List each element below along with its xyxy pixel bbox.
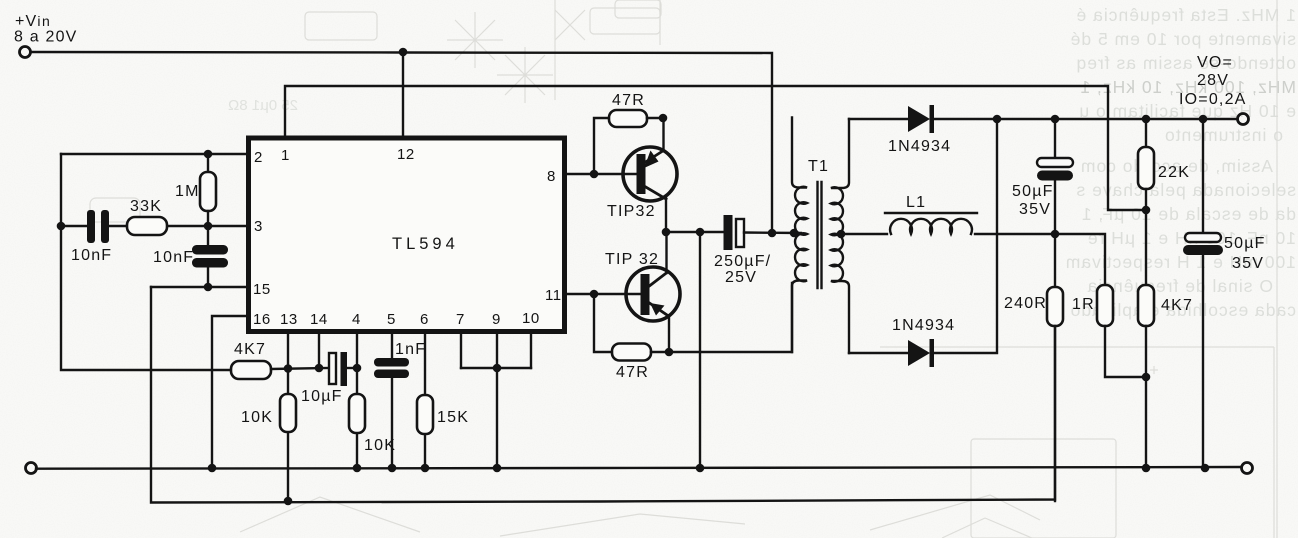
resistor R12 1R bbox=[1097, 285, 1113, 326]
wire left vertical from pin2 down bbox=[61, 154, 231, 370]
svg-text:L1: L1 bbox=[906, 194, 926, 211]
wire L1 to right column bbox=[975, 234, 1105, 285]
svg-text:8: 8 bbox=[547, 168, 556, 185]
resistor R5 10K bbox=[349, 394, 365, 433]
node pin4 wire bbox=[353, 364, 362, 373]
transformer T1 secondary bbox=[831, 119, 849, 353]
wire cap to center tap bbox=[744, 231, 801, 234]
bleed-through layer placeholder bbox=[0, 0, 1, 1]
svg-text:6: 6 bbox=[420, 311, 429, 328]
node collectors join bbox=[662, 228, 671, 237]
faint paper artifacts bbox=[1276, 0, 1278, 538]
svg-text:25V: 25V bbox=[725, 269, 757, 286]
wire pins 7-9-10 join bbox=[461, 367, 531, 369]
svg-text:28V: 28V bbox=[1197, 72, 1229, 89]
node 50uF mid tap bbox=[1051, 230, 1060, 239]
resistor R7 47R top bbox=[594, 118, 609, 174]
svg-text:33K: 33K bbox=[130, 198, 162, 215]
terminal output bbox=[1238, 114, 1249, 125]
svg-text:TL594: TL594 bbox=[392, 235, 459, 253]
svg-text:4: 4 bbox=[352, 311, 361, 328]
node 1M top bbox=[204, 150, 213, 159]
resistor R8 47R bottom bbox=[594, 294, 612, 352]
capacitor C7 50uF right bbox=[1202, 119, 1204, 234]
wire pin 3 chain bbox=[61, 225, 87, 227]
svg-text:15: 15 bbox=[253, 281, 271, 298]
svg-text:da de escala de 10 µF, 1: da de escala de 10 µF, 1 bbox=[1081, 204, 1296, 224]
node 4K7 ground bbox=[1142, 464, 1151, 473]
node ground drop bbox=[696, 228, 705, 237]
resistor R2 33K bbox=[127, 217, 167, 235]
node Q1 emitter / 47R bbox=[659, 114, 668, 123]
inductor L1 bbox=[890, 219, 972, 234]
svg-text:16: 16 bbox=[253, 311, 271, 328]
terminal +Vin input bbox=[20, 47, 31, 58]
resistor R1 1M bbox=[207, 154, 209, 172]
svg-text:240R: 240R bbox=[1004, 295, 1047, 312]
node pin5 ground bbox=[388, 464, 397, 473]
node Vin drop tap bbox=[768, 229, 777, 238]
node Q2 emitter 47R bbox=[665, 348, 674, 357]
svg-text:8 a 20V: 8 a 20V bbox=[14, 29, 78, 46]
node pin13 lower rail bbox=[284, 497, 293, 506]
wire lower feedback rail bbox=[151, 287, 1055, 503]
wire collector rail to cap bbox=[666, 231, 724, 233]
resistor R4 10K bbox=[280, 394, 296, 432]
svg-text:1: 1 bbox=[281, 147, 290, 164]
svg-text:TIP 32: TIP 32 bbox=[605, 251, 659, 268]
transformer T1 primary bbox=[792, 118, 807, 353]
resistor R6 15K bbox=[417, 395, 433, 434]
node 47R tap Q1 bbox=[590, 170, 599, 179]
svg-text:obtendo-se assim as freq: obtendo-se assim as freq bbox=[1076, 53, 1297, 73]
wire pin 2 bbox=[61, 153, 248, 155]
node pin14 wire bbox=[315, 364, 324, 373]
svg-text:1nF: 1nF bbox=[395, 341, 426, 358]
node 50uF right ground bbox=[1201, 464, 1210, 473]
node left 10nF bbox=[57, 222, 66, 231]
wire pin 4 vertical bbox=[356, 334, 358, 394]
diode D1 1N4934 bbox=[849, 118, 908, 120]
node pin13 wire bbox=[284, 364, 293, 373]
svg-text:10nF: 10nF bbox=[71, 247, 112, 264]
svg-text:11: 11 bbox=[545, 287, 562, 304]
svg-text:10µF: 10µF bbox=[301, 388, 343, 405]
node rail 50uF mid bbox=[1051, 115, 1060, 124]
svg-text:10nF: 10nF bbox=[153, 249, 194, 266]
svg-text:TIP32: TIP32 bbox=[607, 203, 656, 220]
node pin4 ground bbox=[353, 464, 362, 473]
node pin6 ground bbox=[421, 464, 430, 473]
svg-text:9: 9 bbox=[492, 311, 501, 328]
resistor R3 4K7 bbox=[231, 361, 271, 379]
wire pin 15 bbox=[151, 286, 248, 288]
svg-text:13: 13 bbox=[280, 311, 298, 328]
svg-text:50µF: 50µF bbox=[1012, 183, 1054, 200]
svg-text:4K7: 4K7 bbox=[1161, 297, 1193, 314]
diode D2 1N4934 bbox=[849, 352, 908, 354]
wire pin 16 bbox=[212, 316, 248, 468]
capacitor C1 10nF bbox=[87, 210, 95, 243]
svg-text:1 MHz. Esta frequência é: 1 MHz. Esta frequência é bbox=[1076, 5, 1296, 25]
svg-text:22K: 22K bbox=[1158, 164, 1190, 181]
node primary center tap bbox=[790, 229, 799, 238]
terminal ground left bbox=[26, 463, 37, 474]
node 4K7 1R join bbox=[1142, 373, 1151, 382]
svg-text:2: 2 bbox=[254, 149, 263, 166]
wire pin 11 to Q2 base bbox=[567, 293, 641, 295]
wire 240R bottom crossing ground bbox=[1054, 326, 1056, 501]
node pin9 ground bbox=[493, 464, 502, 473]
svg-text:1N4934: 1N4934 bbox=[892, 317, 955, 334]
wire pin 13 vertical bbox=[287, 334, 289, 394]
node rail 50uF right bbox=[1199, 115, 1208, 124]
wire drop to ground bbox=[699, 232, 701, 468]
node D2 to rail bbox=[993, 115, 1002, 124]
capacitor C2 10nF bbox=[207, 226, 209, 246]
wire pin 14 vertical bbox=[318, 334, 320, 368]
capacitor C4 1nF bbox=[374, 358, 409, 367]
svg-text:14: 14 bbox=[310, 311, 328, 328]
wire pin 10 vertical bbox=[530, 334, 532, 368]
svg-text:O sinal de frequência: O sinal de frequência bbox=[1087, 276, 1273, 296]
node pin12 top bbox=[399, 48, 408, 57]
svg-text:5: 5 bbox=[387, 311, 396, 328]
wire pin 7 vertical bbox=[460, 334, 462, 368]
svg-text:35V: 35V bbox=[1232, 255, 1264, 272]
svg-text:25 0µ1 8Ω: 25 0µ1 8Ω bbox=[228, 97, 298, 114]
svg-text:T1: T1 bbox=[808, 158, 829, 175]
node C2 bottom bbox=[204, 283, 213, 292]
node drop ground bbox=[696, 464, 705, 473]
svg-text:10K: 10K bbox=[241, 409, 273, 426]
svg-text:250µF/: 250µF/ bbox=[714, 253, 771, 270]
wire pin 6 vertical bbox=[424, 334, 426, 395]
wire pin 5 vertical bbox=[391, 334, 393, 359]
node pin9 join bbox=[493, 364, 502, 373]
node rail 22K bbox=[1142, 115, 1151, 124]
wire Q2 emitter to transformer bottom bbox=[669, 283, 792, 352]
wire pin 1 feedback to right side bbox=[285, 86, 1146, 210]
resistor R9 240R bbox=[1047, 287, 1063, 326]
wire ground rail bbox=[36, 467, 1242, 469]
node feedback / 22K junction bbox=[1142, 206, 1151, 215]
svg-text:47R: 47R bbox=[616, 364, 649, 381]
svg-text:1R: 1R bbox=[1072, 296, 1095, 313]
wire pin 9 vertical bbox=[496, 334, 498, 468]
wire pin 12 bbox=[402, 52, 404, 138]
terminal ground right bbox=[1242, 463, 1253, 474]
capacitor C6 50uF mid bbox=[1054, 119, 1056, 159]
svg-text:7: 7 bbox=[456, 311, 465, 328]
svg-text:IO=0,2A: IO=0,2A bbox=[1179, 91, 1247, 108]
svg-text:VO=: VO= bbox=[1197, 54, 1233, 71]
wire secondary tap to L1 bbox=[838, 233, 887, 235]
svg-text:+Vin: +Vin bbox=[15, 13, 51, 30]
svg-text:10: 10 bbox=[522, 310, 540, 327]
svg-text:35V: 35V bbox=[1019, 201, 1051, 218]
transistor Q1 TIP32 bbox=[623, 147, 677, 201]
resistor R11 4K7 right bbox=[1145, 210, 1147, 285]
node pin16 ground bbox=[208, 464, 217, 473]
wire +Vin top rail bbox=[31, 52, 773, 233]
resistor R10 22K bbox=[1145, 119, 1147, 147]
capacitor C3 10uF bbox=[329, 353, 336, 384]
svg-text:50µF: 50µF bbox=[1224, 235, 1266, 252]
node secondary center tap bbox=[837, 230, 846, 239]
node 47R tap Q2 bbox=[590, 290, 599, 299]
svg-text:3: 3 bbox=[254, 218, 263, 235]
svg-text:47R: 47R bbox=[612, 92, 645, 109]
svg-text:4K7: 4K7 bbox=[234, 341, 266, 358]
wire 4K7 to pin4 bbox=[271, 368, 329, 369]
node pin3 / 1M bottom bbox=[204, 222, 213, 231]
svg-text:15K: 15K bbox=[437, 409, 469, 426]
svg-text:1N4934: 1N4934 bbox=[888, 138, 951, 155]
svg-text:sivamente por 10 em 5 dé: sivamente por 10 em 5 dé bbox=[1070, 29, 1296, 49]
wire pin 8 to Q1 base bbox=[567, 173, 637, 175]
IC U1 TL594 box bbox=[249, 138, 565, 332]
transistor Q2 TIP32 bbox=[626, 267, 680, 321]
svg-text:12: 12 bbox=[397, 146, 415, 163]
capacitor C5 250uF/25V bbox=[724, 215, 733, 250]
svg-text:1M: 1M bbox=[175, 183, 200, 200]
svg-text:o instrumento: o instrumento bbox=[1164, 125, 1283, 145]
transformer core bbox=[816, 182, 818, 288]
